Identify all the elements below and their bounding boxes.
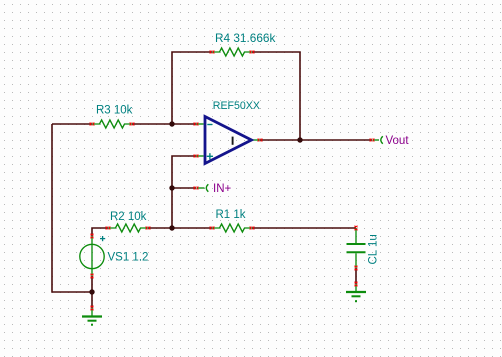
wire R2 right pin to R1 left pin [148,227,212,229]
svg-text:Vout: Vout [386,135,410,147]
node: R2/R1 junction [169,225,174,230]
wire op-amp output to Vout terminal [260,139,372,141]
wire R1 right pin to CL top pin [252,227,356,229]
wire R3 right pin to op-amp inverting input [132,123,196,125]
capacitor CL [347,226,366,271]
svg-text:VS1 1.2: VS1 1.2 [108,252,149,264]
wire far-left vertical down to bottom node [52,124,92,292]
svg-text:IN+: IN+ [213,183,232,195]
wire IN+ node to IN+ terminal [172,187,196,189]
wire R2 left pin to VS1 top pin [92,228,108,236]
op-amp U1 REF50XX [194,117,263,164]
svg-text:R2 10k: R2 10k [110,211,147,223]
resistor R4 [210,48,255,56]
svg-text:R3 10k: R3 10k [96,105,133,117]
ground below CL [346,282,366,303]
wire from R4 left pin to inverting node [172,52,212,124]
node: bottom-left ground junction [89,289,94,294]
resistor R3 [90,120,135,128]
svg-text:R1 1k: R1 1k [216,209,246,221]
wire CL bottom pin to ground [355,268,357,284]
wire from R4 right pin down to output node [252,52,300,140]
resistor R1 [210,224,255,232]
node: IN+ junction [169,185,174,190]
terminal IN+ [194,184,209,192]
resistor R2 [106,224,151,232]
node: inverting input junction [169,121,174,126]
ground below VS1 [82,306,102,326]
svg-text:CL 1u: CL 1u [368,234,380,264]
wire non-inverting input down through IN+ node to R-row node [172,156,196,228]
svg-text:R4 31.666k: R4 31.666k [215,31,275,45]
voltage source VS1 [80,234,105,279]
wire VS1 bottom pin to ground [91,276,93,308]
wire left node to R3 left pin [52,123,92,125]
svg-text:REF50XX: REF50XX [213,100,260,112]
terminal Vout [370,136,383,144]
node: output junction [297,137,302,142]
